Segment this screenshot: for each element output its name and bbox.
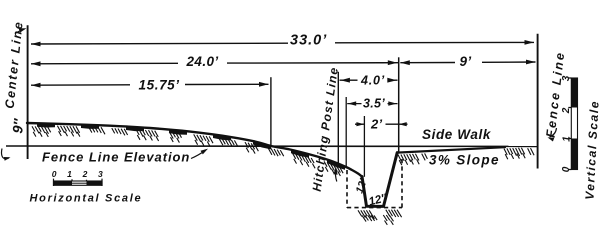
dimension line 24.0': [31, 63, 399, 64]
svg-text:1: 1: [562, 136, 573, 142]
svg-text:33.0’: 33.0’: [290, 33, 327, 49]
fence line (vertical): [537, 34, 539, 169]
svg-text:4.0’: 4.0’: [360, 74, 385, 88]
arrow from label to terrain: [191, 150, 206, 158]
datum base line: [6, 145, 538, 147]
crest shading under terrain: [37, 124, 345, 170]
dashed excavation box right side: [401, 159, 403, 208]
svg-text:2’: 2’: [370, 117, 383, 132]
trench outline (hitching post hole): [362, 153, 397, 207]
hitching post line (vertical extension): [337, 72, 339, 165]
svg-text:3% Slope: 3% Slope: [429, 153, 500, 168]
sidewalk surface 3% slope line: [397, 147, 505, 152]
dimension line 9': [400, 61, 535, 64]
svg-text:Side Walk: Side Walk: [422, 127, 492, 142]
svg-text:Horizontal Scale: Horizontal Scale: [30, 193, 143, 205]
horizontal scale bar: [54, 181, 103, 185]
svg-text:0: 0: [561, 166, 572, 172]
terrain ground line (fence line elevation profile): [27, 123, 362, 177]
dimension line 15.75': [31, 83, 269, 86]
extension line for 3.5 ft: [345, 97, 347, 168]
extension line at 15.75 ft: [270, 77, 272, 147]
hatching near fence line: [504, 148, 534, 160]
svg-text:3: 3: [561, 75, 572, 81]
svg-text:2: 2: [561, 107, 572, 114]
svg-text:Fence Line Elevation: Fence Line Elevation: [42, 150, 190, 165]
hatching under terrain: [32, 126, 343, 176]
svg-text:15.75’: 15.75’: [139, 78, 180, 93]
svg-text:0 1 2 3: 0 1 2 3: [52, 169, 107, 179]
svg-text:9’: 9’: [460, 54, 472, 69]
svg-text:24.0’: 24.0’: [186, 54, 219, 69]
curved arrow up to hitching post line base: [335, 169, 336, 182]
curl arrow at datum left end: [2, 149, 9, 159]
dimension line 4.0': [340, 79, 398, 81]
center line (vertical): [27, 25, 29, 159]
dashed excavation box bottom: [347, 207, 402, 209]
dimension line 33.0': [31, 42, 534, 44]
hatching under trench bottom: [358, 210, 402, 225]
extension line for 2 ft: [363, 116, 365, 177]
svg-text:3.5’: 3.5’: [363, 97, 385, 111]
dimension line 3.5': [347, 103, 397, 105]
arrow from Center Line to line top: [16, 29, 24, 33]
dimension 2' with outside arrows: [355, 123, 408, 125]
extension line at sidewalk edge: [398, 57, 400, 152]
curl arrow from Fence Line text: [550, 128, 557, 137]
vertical scale bar: [571, 78, 577, 170]
dashed excavation box left side: [346, 170, 348, 208]
hatching under sidewalk left patch: [398, 153, 427, 165]
